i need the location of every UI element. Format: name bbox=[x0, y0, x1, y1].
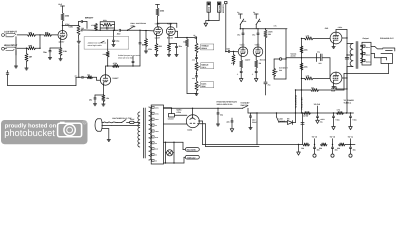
svg-text:12AX7: 12AX7 bbox=[245, 59, 251, 62]
resistor R1 68k bbox=[17, 31, 36, 36]
svg-text:+161v: +161v bbox=[240, 44, 245, 47]
node TO 6V6 flag bbox=[314, 103, 320, 113]
transformer T2 secondary bbox=[361, 45, 363, 62]
svg-text:6V6: 6V6 bbox=[325, 27, 328, 30]
wire rectifier heater pair bbox=[198, 121, 260, 147]
svg-text:470k: 470k bbox=[231, 62, 235, 65]
resistor R22 PI plate load 2 bbox=[253, 11, 261, 29]
capacitor C18 main filter bbox=[249, 113, 257, 128]
jack J4 FX RETURN bbox=[217, 2, 221, 21]
wire bias rail bbox=[301, 38, 302, 113]
svg-text:+265v: +265v bbox=[338, 26, 343, 29]
wire V2 plates bbox=[157, 23, 177, 28]
wire PI supply rail bbox=[240, 28, 287, 29]
wire jack sleeves to ground bbox=[15, 37, 17, 66]
capacitor C20 filter bbox=[332, 113, 339, 127]
resistor R6 100k plate load bbox=[61, 6, 70, 26]
annotation jumper note bbox=[118, 54, 141, 60]
svg-text:UF4007: UF4007 bbox=[168, 118, 174, 121]
svg-text:12AX7: 12AX7 bbox=[155, 36, 161, 39]
resistor R33 chain 3 bbox=[337, 143, 345, 150]
svg-text:SWITCH: SWITCH bbox=[241, 104, 249, 107]
svg-text:TO V1: TO V1 bbox=[348, 136, 353, 139]
resistor R8 820k parallel bbox=[100, 19, 116, 31]
wire V1A plate bbox=[62, 25, 63, 31]
wire V1B plate up bbox=[105, 66, 107, 75]
triode V1A bbox=[58, 25, 73, 43]
resistor R21 PI plate load 1 bbox=[237, 11, 246, 29]
triode V2A bbox=[154, 23, 163, 40]
svg-text:1M: 1M bbox=[29, 56, 32, 59]
net flag HEATERS bbox=[183, 142, 199, 151]
wire plate to volume bbox=[63, 25, 79, 27]
input jack J2 (HIGH INPUT) bbox=[2, 44, 18, 51]
wire rectifier output bbox=[164, 108, 243, 116]
ground (VR1) bbox=[77, 41, 80, 43]
ground (C21) bbox=[349, 127, 353, 130]
svg-text:GZ34: GZ34 bbox=[177, 111, 182, 114]
wire mains neutral bbox=[112, 125, 140, 127]
resistor R12 V2B cathode bbox=[168, 44, 171, 55]
ground (tone stack) bbox=[195, 91, 198, 96]
svg-text:R: R bbox=[84, 121, 86, 125]
svg-text:B+: B+ bbox=[237, 11, 239, 14]
svg-text:220k: 220k bbox=[304, 65, 308, 68]
svg-text:TO SCREENS: TO SCREENS bbox=[294, 94, 297, 108]
resistor R23 470R screen bbox=[264, 25, 276, 82]
label mains plug bbox=[112, 117, 132, 120]
ground (C1) bbox=[48, 58, 51, 60]
svg-text:.1: .1 bbox=[252, 73, 254, 76]
capacitor C27 PI 2 bbox=[252, 71, 257, 78]
svg-text:SEND: SEND bbox=[208, 6, 211, 11]
wire NFB bbox=[319, 64, 389, 91]
ground (C25) bbox=[230, 129, 234, 132]
wire mains earth bbox=[108, 129, 110, 140]
annotation added tone-cut note bbox=[84, 37, 129, 50]
transformer T1 terminal board bbox=[151, 105, 163, 164]
ground (mains earth) bbox=[107, 140, 110, 142]
wire V4 plate to OT bbox=[336, 30, 352, 44]
potentiometer VR5 intensity bbox=[273, 59, 289, 79]
mains plug bbox=[95, 119, 111, 131]
capacitor C15 PI plate 1 bbox=[237, 29, 244, 47]
svg-text:22u: 22u bbox=[227, 121, 230, 124]
svg-text:+159v: +159v bbox=[255, 44, 260, 47]
capacitor C16 PI plate 2 bbox=[252, 29, 259, 47]
wire PI cathodes bbox=[241, 56, 256, 60]
triode V3A phase inverter bbox=[238, 44, 250, 62]
rectifier V6 GZ34 bbox=[186, 115, 199, 132]
svg-text:12AX7: 12AX7 bbox=[59, 40, 65, 43]
svg-text:22k: 22k bbox=[337, 147, 340, 150]
wire chain ground stub bbox=[298, 144, 299, 152]
resistor R16 68k V1B grid bbox=[87, 74, 100, 81]
capacitor C23 chain 2 bbox=[331, 145, 337, 155]
svg-text:1.5k: 1.5k bbox=[106, 97, 110, 100]
wire OT centre tap down bbox=[345, 44, 352, 114]
ground (C26) bbox=[239, 79, 243, 82]
node TO POWER TUBES flag bbox=[344, 99, 355, 105]
svg-text:100k: 100k bbox=[103, 53, 107, 56]
node TO V1 flag bbox=[348, 136, 353, 146]
net flag 6.3V bbox=[184, 155, 199, 163]
svg-text:when all tone full: when all tone full bbox=[118, 56, 133, 59]
label Output Trans bbox=[363, 37, 370, 40]
svg-text:68k: 68k bbox=[87, 74, 90, 77]
svg-text:FROM STBY: FROM STBY bbox=[300, 97, 303, 110]
wire tone spine 2 bbox=[196, 71, 197, 76]
jack J5 speaker jack bbox=[371, 47, 395, 64]
ground (R12 C7) bbox=[167, 55, 178, 57]
svg-text:1T5: 1T5 bbox=[274, 25, 277, 28]
transformer T2 output primary bbox=[350, 44, 353, 67]
svg-text:SPEAKER OUT: SPEAKER OUT bbox=[380, 37, 395, 40]
svg-text:B+: B+ bbox=[253, 11, 255, 14]
svg-text:40u: 40u bbox=[353, 149, 356, 152]
capacitor C8 .02 coupling bbox=[193, 34, 197, 39]
wire B+ rail bbox=[256, 112, 353, 113]
svg-text:photobucket: photobucket bbox=[4, 128, 55, 138]
ground (C18) bbox=[249, 128, 252, 130]
ground (C23) bbox=[331, 154, 334, 157]
resistor R5 cathode 1.5k bbox=[59, 48, 68, 59]
capacitor C17 reservoir bbox=[217, 108, 223, 124]
svg-text:56k: 56k bbox=[183, 41, 186, 44]
terminal strip speaker taps bbox=[362, 42, 371, 65]
wire signal bus bbox=[96, 30, 118, 31]
svg-text:470k: 470k bbox=[148, 48, 152, 51]
ground (C24) bbox=[349, 154, 352, 157]
capacitor C21 filter bbox=[349, 112, 356, 126]
capacitor C6 680p bbox=[139, 30, 147, 66]
svg-text:.1: .1 bbox=[237, 73, 239, 76]
label FINAL 12AX7 GRID bbox=[131, 22, 147, 27]
photobucket watermark banner bbox=[1, 120, 88, 144]
capacitor C28 bias coupling bbox=[302, 51, 331, 79]
svg-text:TO 6V6: TO 6V6 bbox=[314, 103, 320, 106]
svg-text:HTR 6.3V: HTR 6.3V bbox=[187, 156, 196, 159]
ground (C4) bbox=[112, 40, 119, 47]
wire V5 plate to OT bbox=[336, 67, 352, 90]
svg-text:820: 820 bbox=[159, 45, 162, 48]
wire chain tail bbox=[345, 144, 355, 146]
capacitor C19 screen filter bbox=[316, 113, 325, 124]
wire to V2 grid bbox=[128, 30, 154, 32]
svg-text:Output: Output bbox=[363, 37, 370, 40]
capacitor C22 chain 1 bbox=[313, 145, 319, 155]
capacitor C5 .022 coupling bbox=[117, 29, 128, 35]
capacitor C7 V2B bypass bbox=[169, 44, 183, 55]
label SPEAKER OUT bbox=[380, 37, 395, 40]
ground (R17) bbox=[102, 104, 105, 106]
resistor R15 470k mixer bbox=[113, 62, 120, 68]
svg-text:500p: 500p bbox=[115, 40, 119, 43]
wire V1B plate feed bbox=[107, 40, 109, 52]
resistor R10 100k V2 plate bbox=[156, 5, 166, 24]
svg-text:50k: 50k bbox=[279, 69, 282, 72]
svg-text:.022: .022 bbox=[226, 48, 230, 51]
capacitor C24 chain 3 bbox=[349, 145, 355, 155]
svg-text:12AX7: 12AX7 bbox=[112, 77, 119, 80]
wire V2 cathodes bbox=[156, 36, 169, 44]
svg-text:TO V2: TO V2 bbox=[330, 136, 335, 139]
svg-text:ECC83: ECC83 bbox=[167, 36, 173, 39]
svg-text:25u: 25u bbox=[89, 99, 92, 102]
svg-text:TUBES 2: TUBES 2 bbox=[344, 102, 352, 105]
ground (input jacks) bbox=[14, 66, 17, 68]
wire tone spine 1 bbox=[196, 53, 197, 57]
ground (R3) bbox=[25, 68, 28, 70]
transformer T1 core bbox=[144, 108, 146, 158]
node footswitch terminal bbox=[274, 58, 287, 60]
resistor R13 slope 56k bbox=[183, 37, 196, 94]
pentode V5 6V6 no2 bbox=[330, 72, 342, 92]
diode D1 marker bbox=[287, 113, 296, 125]
svg-text:325V-0-325V 5V 2A: 325V-0-325V 5V 2A bbox=[217, 103, 234, 106]
ground (V5 cathode) bbox=[332, 87, 335, 89]
capacitor C1 25uF cathode bypass bbox=[43, 48, 51, 58]
wire screens riser bbox=[294, 89, 297, 113]
triode V2B bbox=[166, 23, 175, 40]
switch S1 loop bypass bbox=[127, 27, 135, 31]
wire FX sleeves bbox=[206, 20, 219, 23]
svg-text:33u: 33u bbox=[220, 114, 223, 117]
ground (FX jacks) bbox=[204, 23, 208, 26]
ground (C19) bbox=[316, 120, 320, 123]
capacitor C10 .022 bass bbox=[192, 76, 198, 81]
switch S3 standby bbox=[242, 106, 257, 113]
capacitor C14 .022 PI input bbox=[226, 48, 238, 53]
ground (V4 cathode) bbox=[332, 47, 335, 49]
capacitor C12 coupling bbox=[74, 74, 87, 78]
potentiometer VR3 MIDDLE bbox=[195, 62, 214, 71]
resistor R26 grid stopper 1 bbox=[302, 34, 331, 40]
capacitor C29 tail bbox=[264, 82, 270, 95]
resistor R32 chain 2 bbox=[319, 143, 327, 150]
wire PI right drop bbox=[285, 29, 287, 79]
svg-text:HEATERS: HEATERS bbox=[187, 149, 197, 152]
svg-text:22u: 22u bbox=[317, 51, 320, 54]
svg-text:EFFECTS: EFFECTS bbox=[222, 4, 225, 13]
svg-text:22k: 22k bbox=[311, 86, 314, 89]
svg-text:22k: 22k bbox=[319, 147, 322, 150]
svg-text:250K: 250K bbox=[201, 85, 206, 88]
wire heater bottom bbox=[164, 162, 185, 163]
resistor R3 1M grid leak bbox=[25, 48, 32, 69]
wire chain drop bbox=[257, 113, 303, 145]
ground (C17) bbox=[216, 124, 219, 126]
label effects loop bbox=[222, 4, 225, 13]
capacitor C2 bright cap bbox=[79, 20, 88, 28]
label standby switch bbox=[241, 101, 251, 107]
label BRIGHT bbox=[85, 17, 94, 20]
wire cathode grounds bbox=[333, 44, 335, 87]
capacitor C3 .02 parallel bbox=[100, 27, 114, 29]
wire heater top bbox=[164, 142, 184, 143]
resistor R27 grid stopper 2 bbox=[302, 74, 331, 80]
svg-text:ECC83: ECC83 bbox=[260, 59, 266, 62]
wire FX return line bbox=[225, 2, 227, 52]
wire input junction bbox=[36, 34, 45, 49]
resistor R29 dropper bbox=[303, 112, 311, 118]
ground (R9) bbox=[144, 51, 147, 53]
svg-text:B+3: B+3 bbox=[59, 3, 63, 6]
svg-text:10k: 10k bbox=[301, 147, 304, 150]
resistor R14 100k V1B plate bbox=[103, 51, 110, 66]
wire PI input bbox=[225, 51, 228, 52]
node B+3 supply tick bbox=[59, 3, 65, 6]
potentiometer VR1 1M VOLUME bbox=[77, 25, 85, 41]
resistor R17 V1B cathode bbox=[102, 95, 109, 104]
svg-text:1k 5W: 1k 5W bbox=[303, 115, 308, 118]
resistor R28 NFB bbox=[296, 86, 319, 91]
resistor R19 PI divider 1 bbox=[231, 60, 243, 71]
resistor R11 V2A cathode bbox=[155, 44, 162, 55]
resistor R24 grid leak 1 bbox=[300, 46, 308, 53]
diode D2 UF4007 bbox=[168, 108, 187, 121]
wire V2B output bbox=[175, 31, 195, 37]
svg-text:4.7k: 4.7k bbox=[337, 109, 341, 112]
ground (chain) bbox=[297, 152, 301, 155]
wire V1B cathode bbox=[95, 85, 104, 96]
capacitor C9 .022 treble bbox=[192, 57, 198, 62]
resistor R20 PI divider 2 bbox=[255, 60, 262, 71]
svg-text:TO V2: TO V2 bbox=[312, 136, 317, 139]
wire V1A cathode bbox=[50, 40, 61, 49]
mains cord bbox=[104, 121, 118, 124]
fuse F1 bbox=[130, 118, 140, 124]
wire intensity to bias bbox=[286, 53, 302, 59]
capacitor C4 tone-cut bbox=[112, 30, 114, 44]
resistor R9 grid leak V2 bbox=[145, 31, 152, 52]
label from rectifier bbox=[217, 100, 237, 106]
node TO V2 flag A bbox=[312, 136, 317, 146]
triode V1B bbox=[100, 75, 119, 85]
potentiometer VR2 TREBLE bbox=[195, 38, 214, 53]
ground (R11) bbox=[155, 55, 158, 57]
ground (C13) bbox=[93, 104, 96, 106]
resistor R25 grid leak 2 bbox=[300, 63, 308, 70]
svg-text:.02: .02 bbox=[193, 34, 195, 37]
transformer T1 primary bbox=[138, 112, 140, 147]
resistor R31 chain 1 bbox=[301, 143, 310, 150]
resistor R4 68k grid stopper bbox=[44, 31, 58, 36]
label 170V bbox=[65, 23, 70, 26]
resistor R30 dropper 2 bbox=[337, 109, 344, 115]
svg-text:+40u: +40u bbox=[335, 118, 339, 121]
svg-text:+40u: +40u bbox=[352, 118, 356, 121]
node TO V2 flag B bbox=[330, 136, 335, 146]
capacitor C13 25u V1B bypass bbox=[89, 95, 96, 104]
input jack J1 (LOW INPUT) bbox=[2, 30, 18, 37]
wire rectifier filament tap bbox=[164, 123, 187, 125]
ground (C22) bbox=[313, 154, 316, 157]
svg-text:820k: 820k bbox=[103, 19, 107, 22]
svg-text:5W: 5W bbox=[268, 33, 271, 36]
svg-text:470k: 470k bbox=[91, 24, 95, 27]
ground (R5) bbox=[59, 59, 62, 61]
wire bias riser label bbox=[300, 97, 303, 110]
potentiometer VR4 BASS bbox=[195, 81, 214, 91]
svg-text:RETRN: RETRN bbox=[218, 5, 221, 12]
wire y66 bus bbox=[106, 65, 141, 66]
svg-text:47u: 47u bbox=[252, 34, 255, 37]
svg-text:100k: 100k bbox=[242, 20, 246, 23]
svg-text:82k: 82k bbox=[258, 20, 261, 23]
svg-text:extra high treble: extra high treble bbox=[88, 44, 102, 47]
svg-text:220k: 220k bbox=[304, 48, 308, 51]
pilot lamp LP1 bbox=[166, 142, 175, 163]
resistor R18 PI grid bbox=[232, 51, 235, 65]
jack J3 FX SEND bbox=[207, 2, 211, 21]
svg-text:250KA: 250KA bbox=[201, 47, 207, 50]
switch S2 mains on/off bbox=[118, 120, 130, 123]
transformer T2 core bbox=[356, 42, 358, 69]
svg-text:40u: 40u bbox=[320, 121, 323, 124]
ground (C20) bbox=[332, 127, 336, 130]
resistor R7 470k bbox=[91, 24, 97, 31]
capacitor C11 .022 bbox=[132, 56, 134, 66]
label rectifier type bbox=[177, 108, 183, 114]
triode V3B phase inverter bbox=[253, 44, 265, 62]
wire wiper to tone bbox=[85, 29, 96, 31]
wire HT secondary tap bbox=[164, 107, 172, 110]
capacitor C26 PI 1 bbox=[237, 71, 243, 78]
wire screen dropper bbox=[301, 112, 304, 144]
wire channel-2 bus bbox=[6, 45, 79, 86]
svg-text:BRIGHT: BRIGHT bbox=[85, 17, 94, 20]
resistor R2 68k bbox=[17, 45, 36, 50]
svg-text:47u: 47u bbox=[237, 34, 240, 37]
wire screens bbox=[342, 37, 348, 78]
svg-text:LOW INPUT: LOW INPUT bbox=[4, 30, 17, 33]
transformer T1 secondary bbox=[149, 107, 151, 160]
pentode V4 6V6 no1 bbox=[325, 26, 343, 44]
ground (C27) bbox=[254, 79, 258, 82]
capacitor C25 PI misc bbox=[227, 118, 234, 128]
choke L1 detour bbox=[277, 113, 288, 123]
